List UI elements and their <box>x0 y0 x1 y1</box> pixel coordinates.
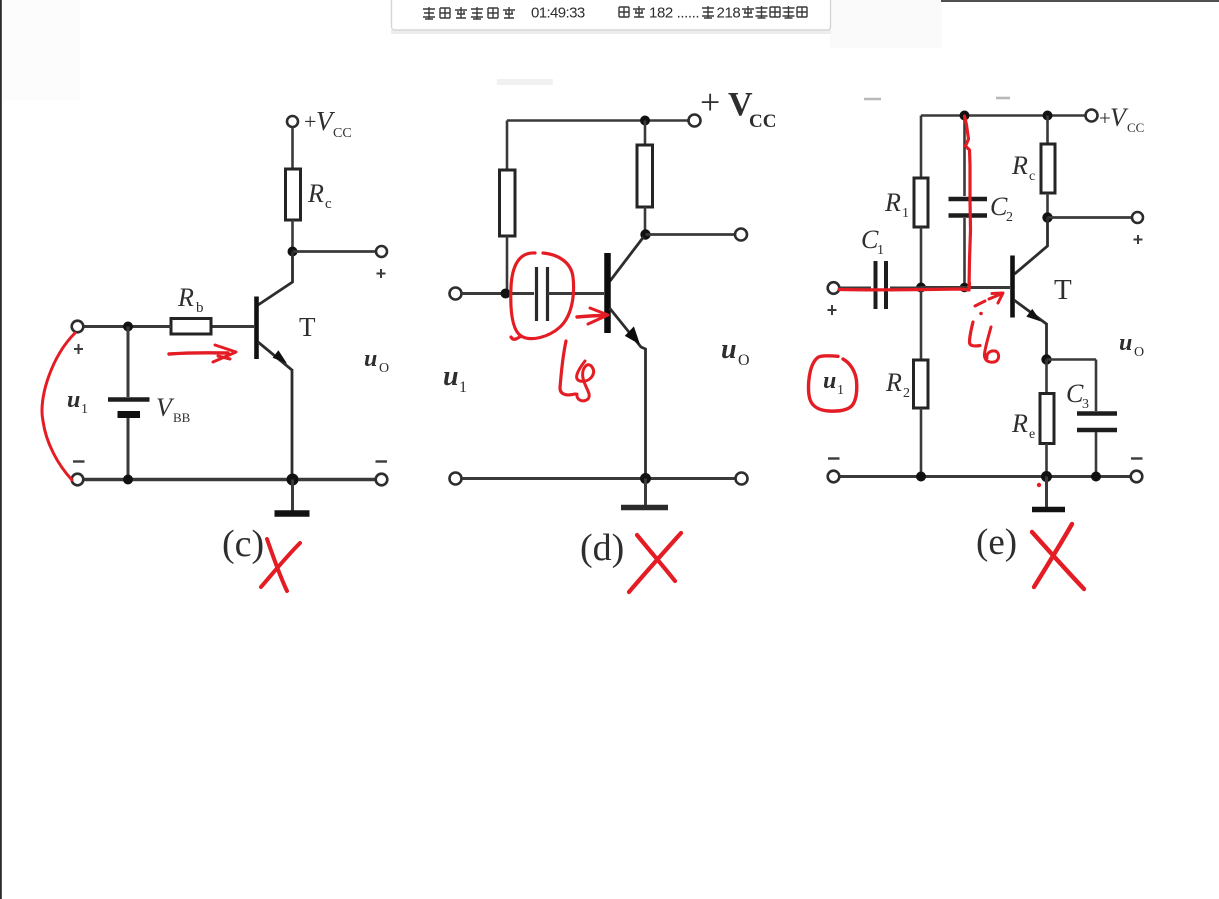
emitter arrow (d) <box>625 326 640 344</box>
wire Vcc to Rc <box>291 128 294 170</box>
resistor R2 (e) <box>914 360 929 408</box>
svg-text:1: 1 <box>837 383 844 398</box>
svg-text:u: u <box>823 368 836 394</box>
input wire (e) <box>839 287 871 290</box>
svg-text:u: u <box>1119 330 1132 356</box>
svg-text:R: R <box>884 188 901 217</box>
wire rail to left resistor (d) <box>506 121 509 171</box>
base wire Rb to T (c) <box>211 325 254 328</box>
red ib handwriting (e) <box>970 322 981 346</box>
svg-text:e: e <box>1029 427 1035 442</box>
Rc label (c) <box>307 179 332 212</box>
uO label (c) <box>364 346 389 376</box>
wire collector node to output terminal <box>293 250 377 253</box>
battery VBB long plate (c) <box>108 397 150 402</box>
resistor Rb (c) <box>171 319 211 335</box>
svg-text:c: c <box>1029 169 1035 184</box>
VBB label (c) <box>156 393 191 425</box>
faint ghost block top-right of bar <box>830 0 942 48</box>
wire rail to Rc (e) <box>1046 116 1049 145</box>
emitter node on rail (c) <box>287 474 299 486</box>
red arrow at base (d) <box>577 316 604 318</box>
red dot (e) <box>979 312 983 316</box>
svg-text:b: b <box>196 300 204 316</box>
red X over caption (c) <box>261 539 300 591</box>
capacitor C1 left plate (e) <box>874 261 878 309</box>
red arrow at base (c) <box>169 353 228 354</box>
left bias resistor (d) <box>500 170 516 236</box>
input terminal (c) <box>72 321 84 333</box>
svg-text:CC: CC <box>749 111 776 132</box>
toolbar text: 电子182 ......等218人正在观看 <box>619 6 645 17</box>
base wire capacitor to T (d) <box>548 292 605 295</box>
wire rail to R1 (e) <box>920 116 923 179</box>
emitter node (e) <box>1041 354 1051 364</box>
resistor Rc (c) <box>286 169 301 220</box>
wire R1 to base node (e) <box>920 227 923 288</box>
plus mark under output terminal (c) <box>377 269 386 278</box>
minus mark above right terminal (c) <box>376 460 388 462</box>
top rail (e) <box>921 114 1086 117</box>
input node (c) <box>123 322 133 332</box>
ground (d) <box>621 479 668 508</box>
ground (e) <box>1032 477 1065 510</box>
ground (c) <box>275 480 310 514</box>
red iB scribble (d) <box>560 341 575 395</box>
svg-text:2: 2 <box>1006 210 1013 225</box>
svg-text:3: 3 <box>1082 397 1089 412</box>
input terminal (e) <box>828 282 840 294</box>
rail node over Rc (e) <box>1043 111 1053 121</box>
Vcc terminal (c) <box>287 116 298 127</box>
transistor base bar (e) <box>1010 256 1015 318</box>
+Vcc label (e) <box>1099 103 1144 135</box>
right collector resistor (d) <box>637 145 653 207</box>
svg-text:R: R <box>177 283 194 312</box>
u1 label (e) <box>823 368 844 398</box>
u1 label (c) <box>67 387 88 417</box>
plus mark under input terminal (c) <box>74 344 83 354</box>
svg-text:O: O <box>738 352 750 369</box>
minus mark above left terminal (e) <box>828 457 840 459</box>
top rail (d) <box>507 119 689 122</box>
ghost mark above circuit e <box>864 98 1010 99</box>
wire R2 to bottom rail (e) <box>920 408 923 477</box>
wire down to C3 (e) <box>1095 360 1098 412</box>
+Vcc label (c) <box>304 106 352 141</box>
base wire (e) <box>921 286 1010 289</box>
svg-text:1: 1 <box>902 206 909 221</box>
capacitor C3 top plate (e) <box>1077 411 1117 416</box>
base node left (e) <box>916 283 926 293</box>
emitter arrow (e) <box>1026 309 1041 322</box>
output terminal (c) <box>376 246 387 257</box>
node R2 on rail (e) <box>916 472 926 482</box>
svg-text:R: R <box>307 179 324 208</box>
red circle around u1 (e) <box>808 356 856 411</box>
bottom-right terminal (c) <box>376 474 388 486</box>
svg-text:+: + <box>700 82 720 122</box>
svg-text:T: T <box>1054 274 1072 306</box>
plus mark under output terminal (e) <box>1134 235 1143 244</box>
toolbar text: 正在分享屏幕 <box>423 7 515 19</box>
C3 label (e) <box>1066 379 1089 412</box>
svg-text:u: u <box>443 361 459 392</box>
svg-text:c: c <box>325 196 332 212</box>
capacitor C1 right plate (e) <box>884 261 888 309</box>
wire C1 to base node (e) <box>890 287 921 290</box>
Rb label (c) <box>177 283 204 316</box>
base node mid (e) <box>960 283 970 293</box>
capacitor C3 bottom plate (e) <box>1077 428 1117 433</box>
red X over caption (d) <box>629 533 681 592</box>
svg-text:T: T <box>299 312 316 342</box>
output terminal (d) <box>735 229 747 241</box>
Re label (e) <box>1011 409 1035 442</box>
bottom-right terminal (d) <box>736 473 748 485</box>
rail node over C2 (e) <box>960 111 970 121</box>
input node (d) <box>501 289 511 299</box>
top-right dark line <box>941 0 1219 2</box>
emitter lead (c) <box>258 342 292 480</box>
faint ghost block top-left corner <box>2 0 80 100</box>
svg-text:1: 1 <box>877 243 884 258</box>
bottom-left terminal (d) <box>450 473 462 485</box>
wire resistor to collector node (d) <box>644 207 647 235</box>
svg-text:R: R <box>885 368 902 397</box>
+Vcc label (d) <box>700 82 776 132</box>
minus mark above right terminal (e) <box>1131 457 1143 459</box>
emitter lead (e) <box>1014 300 1047 360</box>
svg-text:1: 1 <box>81 402 88 417</box>
svg-text:R: R <box>1011 151 1028 180</box>
svg-text:(e): (e) <box>976 522 1017 563</box>
svg-text:R: R <box>1011 409 1028 438</box>
minus mark above left terminal (c) <box>73 460 85 462</box>
emitter lead (d) <box>610 308 646 479</box>
collector node (c) <box>288 247 298 257</box>
wire base node to R2 (e) <box>920 288 923 361</box>
wire emitter node to C3 (e) <box>1047 358 1097 361</box>
capacitor C2 top plate (e) <box>949 197 988 202</box>
Vcc terminal (d) <box>689 115 701 127</box>
emitter arrow (c) <box>273 350 287 363</box>
wire collector node to output terminal (e) <box>1048 216 1133 219</box>
wire rail to C2 (e) <box>963 116 966 197</box>
wire rail to right resistor (d) <box>644 121 647 146</box>
wire Rc to collector node (e) <box>1046 193 1049 218</box>
wire C3 to bottom rail (e) <box>1095 432 1098 477</box>
wire Re to bottom rail (e) <box>1045 444 1048 477</box>
node C3 on rail (e) <box>1091 472 1101 482</box>
C1 label (e) <box>861 225 884 258</box>
wire Rc to collector node <box>291 220 294 252</box>
transistor base bar (d) <box>604 253 611 333</box>
resistor Rc (e) <box>1041 144 1055 193</box>
input terminal (d) <box>450 288 462 300</box>
svg-text:O: O <box>379 361 389 376</box>
collector lead wire (c) <box>258 252 293 306</box>
collector lead (e) <box>1015 218 1048 275</box>
bottom rail (c) <box>83 478 376 481</box>
svg-text:CC: CC <box>333 126 352 141</box>
uO label (e) <box>1119 330 1144 360</box>
bottom-left terminal (e) <box>828 471 840 483</box>
svg-text:2: 2 <box>903 386 910 401</box>
svg-text:+: + <box>304 109 316 134</box>
svg-text:01:49:33: 01:49:33 <box>531 5 585 22</box>
collector node (d) <box>640 229 650 239</box>
input wire (c) <box>83 325 171 328</box>
svg-text:(c): (c) <box>222 523 264 565</box>
battery VBB short plate (c) <box>118 411 141 418</box>
C2 label (e) <box>990 192 1013 225</box>
Vcc terminal (e) <box>1086 110 1098 122</box>
input wire (d) <box>462 292 535 295</box>
R2 label (e) <box>885 368 910 401</box>
plus mark under input terminal (e) <box>828 305 837 315</box>
red dashed arrow ib (e) <box>975 301 985 306</box>
bottom rail (e) <box>839 475 1131 478</box>
bottom node under battery (c) <box>123 475 133 485</box>
red trace input to rail (e) <box>839 283 970 290</box>
u1 label (d) <box>443 361 467 396</box>
uO label (d) <box>721 334 750 369</box>
emitter node on rail (d) <box>640 473 651 484</box>
wire C2 to base node (e) <box>963 218 966 288</box>
rail node (d) <box>640 116 650 126</box>
capacitor C2 bottom plate (e) <box>949 213 988 218</box>
red X over caption (e) <box>1032 524 1084 589</box>
svg-text:u: u <box>67 387 80 413</box>
red loop around capacitor (d) <box>511 253 574 339</box>
output terminal (e) <box>1132 212 1143 223</box>
capacitor plate left (d) <box>535 267 538 321</box>
resistor R1 (e) <box>914 178 928 227</box>
svg-text:CC: CC <box>1127 120 1144 135</box>
svg-text:182 ......: 182 ...... <box>649 5 699 22</box>
collector lead (d) <box>610 237 644 281</box>
svg-text:O: O <box>1134 345 1144 360</box>
resistor Re (e) <box>1040 394 1054 444</box>
red dot under rail (e) <box>1037 483 1041 487</box>
svg-text:1: 1 <box>459 379 467 396</box>
left edge dark line <box>0 0 2 899</box>
R1 label (e) <box>884 188 909 221</box>
sharing toolbar <box>391 0 831 34</box>
wire resistor to input node (d) <box>506 236 509 294</box>
bottom-left terminal (c) <box>72 474 84 486</box>
wire battery to bottom rail (c) <box>127 418 130 480</box>
transistor T base bar (c) <box>254 297 259 360</box>
bottom-right terminal (e) <box>1131 471 1143 483</box>
wire node to battery (c) <box>127 327 130 398</box>
svg-text:218: 218 <box>717 5 741 22</box>
red arc input short (c) <box>42 333 75 480</box>
svg-text:(d): (d) <box>580 527 624 569</box>
faint ghost band above circuit d <box>497 79 553 85</box>
wire node to output terminal (d) <box>646 233 736 236</box>
svg-text:u: u <box>721 334 737 365</box>
node Re on rail (e) <box>1041 471 1052 482</box>
Rc label (e) <box>1011 151 1035 184</box>
svg-text:BB: BB <box>173 410 191 425</box>
svg-text:u: u <box>364 346 377 372</box>
wire node to Re (e) <box>1045 360 1048 394</box>
bottom rail (d) <box>462 477 737 480</box>
capacitor plate right (d) <box>546 267 549 321</box>
collector node (e) <box>1042 212 1052 222</box>
